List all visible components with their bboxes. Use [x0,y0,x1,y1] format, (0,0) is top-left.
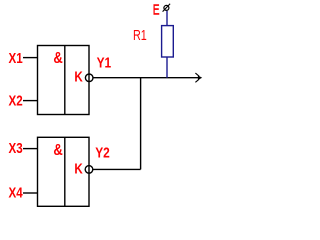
wire input X3 [23,148,38,150]
wire E to resistor (blue lead) [166,11,168,26]
wire input X2 [23,100,38,102]
svg-text:E: E [153,3,160,19]
svg-text:&: & [53,142,62,159]
svg-text:K: K [74,161,83,177]
gate U2 output bubble [85,166,93,174]
svg-text:K: K [74,69,83,85]
terminal E circle [164,5,169,10]
svg-text:X1: X1 [9,51,23,67]
svg-text:&: & [53,50,62,67]
svg-text:R1: R1 [133,28,147,44]
svg-text:X4: X4 [9,186,23,202]
gate U2 body [38,137,90,206]
wire input X1 [23,57,38,59]
wire input X4 [23,192,38,194]
svg-text:Y2: Y2 [95,146,110,162]
svg-text:X2: X2 [9,94,23,110]
wire connector Y2 up to Y1 net [140,78,142,170]
wire resistor to output net (blue lead) [166,57,168,78]
gate U2 divider [64,137,66,206]
gate U1 divider [64,46,66,115]
svg-text:X3: X3 [9,141,23,157]
arrow head on output [195,73,199,82]
gate U1 output bubble [85,74,93,82]
gate U1 body [38,46,90,115]
terminal E slash [163,4,171,12]
svg-text:Y1: Y1 [97,55,112,71]
wire output Y1 to arrow [93,77,200,79]
wire output Y2 [93,168,141,170]
resistor R1 body [162,26,174,57]
